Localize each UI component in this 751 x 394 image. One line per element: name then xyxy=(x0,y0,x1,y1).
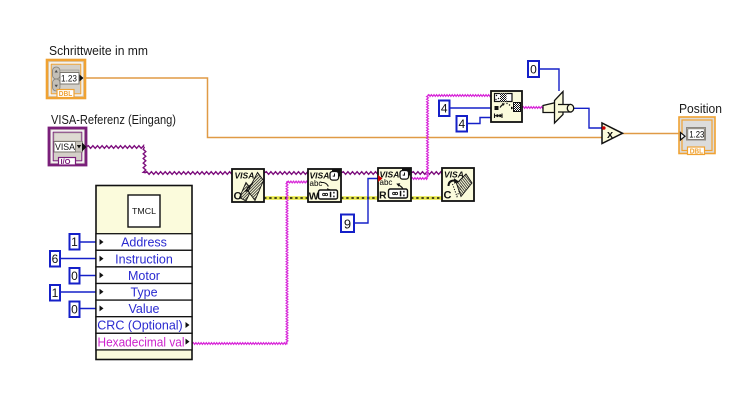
svg-text:TMCL: TMCL xyxy=(132,206,156,216)
wire blue constant 9 to VISA Read byte count xyxy=(354,179,378,224)
cluster row Motor xyxy=(96,267,192,284)
wire VISA purple Read to Close xyxy=(411,172,442,175)
svg-text:CRC (Optional): CRC (Optional) xyxy=(97,319,182,333)
wire VISA purple from control to VISA Open xyxy=(86,146,144,149)
coercion dot red (multiply input) xyxy=(602,126,606,130)
wire VISA purple Open to Write xyxy=(264,172,308,175)
VISA Close U4 xyxy=(442,168,474,202)
svg-text:1: 1 xyxy=(52,286,59,300)
svg-text:VISA: VISA xyxy=(444,170,464,180)
wire VISA purple Write to Read xyxy=(341,172,378,175)
constant 1 (Type) xyxy=(50,285,60,301)
svg-text:1: 1 xyxy=(71,235,78,249)
wire string magenta VISA Read output to String Subset xyxy=(411,178,428,180)
function Multiply xyxy=(602,123,623,144)
svg-text:W: W xyxy=(309,190,319,202)
wire orange DBL from Schrittweite control to multiply xyxy=(85,78,602,138)
svg-text:0: 0 xyxy=(71,269,78,283)
svg-text:x: x xyxy=(607,129,614,141)
wire orange multiply output to Position xyxy=(622,133,680,135)
svg-text:Address: Address xyxy=(121,236,167,250)
wire string magenta Hexadecimal val to VISA Write xyxy=(192,343,287,345)
wire blue constant 6 to Instruction xyxy=(60,258,96,260)
cluster row Hexadecimal val xyxy=(96,333,192,350)
cluster row Instruction xyxy=(96,250,192,267)
wire blue constant 0 to Value xyxy=(79,308,96,310)
svg-text:C: C xyxy=(444,190,452,202)
cluster row Type xyxy=(96,284,192,301)
svg-text:I/O: I/O xyxy=(61,157,71,166)
function String Subset xyxy=(491,91,522,122)
wire blue constant 4 to String Subset offset xyxy=(449,107,491,109)
constant 0 (Value) xyxy=(70,302,80,318)
svg-text:0: 0 xyxy=(530,63,537,77)
svg-text:VISA: VISA xyxy=(235,171,255,181)
constant 4 (length) xyxy=(457,116,468,132)
wire error cluster Read to Close xyxy=(411,196,442,199)
svg-text:1.23: 1.23 xyxy=(689,130,704,141)
constant 0 (type cast type) xyxy=(528,61,539,77)
VISA Open U1 xyxy=(232,169,264,203)
constant 9 (byte count) xyxy=(341,215,354,233)
svg-text:1.23: 1.23 xyxy=(61,74,77,85)
svg-text:abc: abc xyxy=(310,179,323,188)
wire blue constant 1 to Address xyxy=(79,241,96,243)
svg-text:0: 0 xyxy=(71,303,78,317)
wire error cluster Write to Read xyxy=(341,196,378,199)
constant 0 (Motor) xyxy=(70,268,80,284)
svg-text:Type: Type xyxy=(130,286,157,300)
VISA control VISA-Referenz (Eingang) xyxy=(49,128,87,166)
cluster constant TMCL xyxy=(96,186,192,360)
svg-text:Instruction: Instruction xyxy=(115,252,173,266)
cluster row Address xyxy=(96,234,192,251)
VISA Read U3 xyxy=(378,168,411,201)
svg-text:6: 6 xyxy=(52,252,59,266)
VISA Write U2 xyxy=(308,169,341,202)
svg-text:O: O xyxy=(234,191,243,203)
wire blue constant 0 to Motor xyxy=(79,275,96,277)
wire blue constant 0 to Type Cast type input xyxy=(539,69,559,91)
svg-text:4: 4 xyxy=(458,117,465,131)
svg-text:Position: Position xyxy=(679,101,722,116)
constant 6 (Instruction) xyxy=(50,251,60,267)
wire blue constant 1 to Type xyxy=(60,291,96,293)
svg-text:R: R xyxy=(379,189,387,201)
wire blue constant 4 to String Subset length xyxy=(467,118,491,124)
svg-text:4: 4 xyxy=(441,102,448,116)
svg-text:Hexadecimal val: Hexadecimal val xyxy=(98,335,185,349)
coercion dot red (Read byte count) xyxy=(378,175,383,182)
cluster row CRC (Optional) xyxy=(96,317,192,334)
wire string magenta String Subset to Type Cast xyxy=(522,107,544,109)
numeric indicator Position xyxy=(679,117,715,156)
constant 4 (offset) xyxy=(439,101,450,117)
svg-text:VISA-Referenz (Eingang): VISA-Referenz (Eingang) xyxy=(51,112,176,127)
wire error cluster Open to Write xyxy=(264,196,308,199)
svg-text:Schrittweite in mm: Schrittweite in mm xyxy=(49,43,148,58)
svg-text:9: 9 xyxy=(344,217,351,232)
wire blue Type Cast output to multiply xyxy=(574,108,603,128)
svg-text:Value: Value xyxy=(128,302,159,316)
function Type Cast xyxy=(543,92,574,124)
numeric control Schrittweite in mm xyxy=(47,60,85,98)
svg-text:VISA: VISA xyxy=(55,142,75,152)
svg-text:Motor: Motor xyxy=(128,269,160,283)
constant 1 (Address) xyxy=(70,234,80,250)
cluster row Value xyxy=(96,300,192,317)
svg-text:DBL: DBL xyxy=(690,147,704,156)
svg-text:DBL: DBL xyxy=(59,89,73,98)
